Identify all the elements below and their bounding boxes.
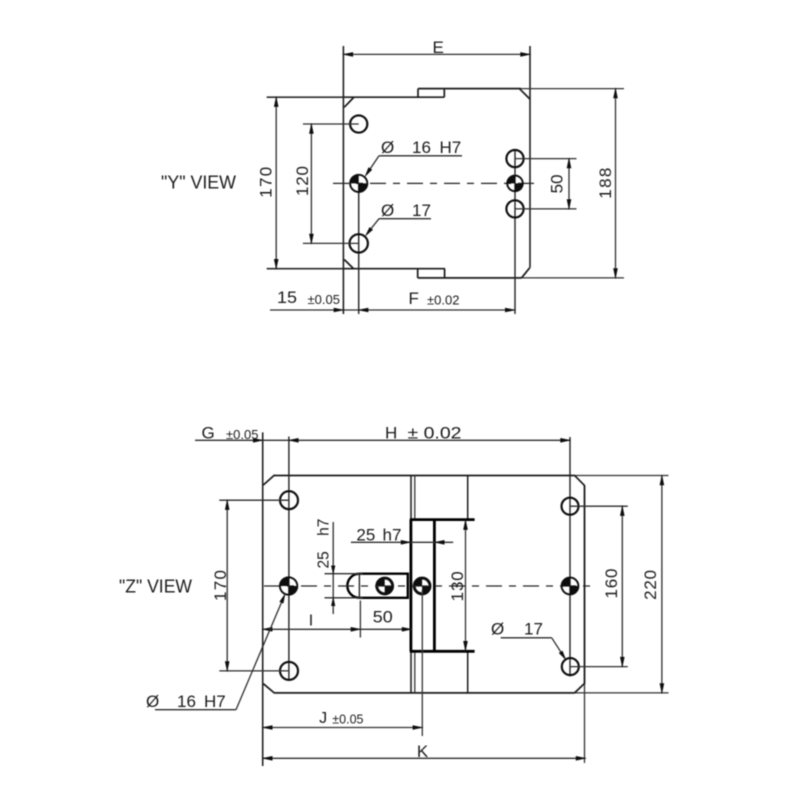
dimension 130 line [465, 520, 467, 652]
Z hole top-left [280, 491, 298, 509]
Z chamfer bottom-right [574, 683, 584, 693]
svg-text:120: 120 [293, 166, 312, 196]
slot cap chord line [358, 574, 360, 598]
svg-text:25: 25 [315, 551, 332, 568]
Z hole top-right [562, 498, 579, 515]
dimension I and 50 line [263, 628, 412, 630]
dimension 220 line [661, 476, 663, 693]
Z dimension 170 line [226, 500, 228, 671]
Z dimension 170 extension lines [219, 499, 289, 501]
svg-text:±0.05: ±0.05 [308, 292, 340, 307]
svg-text:15: 15 [277, 288, 297, 307]
svg-text:I: I [309, 612, 313, 629]
svg-text:H: H [385, 424, 397, 443]
dimension 160 line [621, 506, 623, 666]
svg-text:17: 17 [412, 201, 431, 220]
svg-text:Ø: Ø [381, 138, 394, 157]
svg-text:160: 160 [602, 569, 621, 599]
tenon left line full height [410, 476, 412, 693]
Z left hole column line [288, 437, 290, 681]
dimension 170 extension lines [267, 96, 344, 98]
Y chamfer bottom-left [344, 260, 353, 269]
Z chamfer top-right [574, 475, 584, 486]
svg-text:50: 50 [547, 174, 566, 193]
dimension J line [263, 727, 423, 729]
svg-text:170: 170 [211, 570, 230, 601]
J extension line from slot dowel [421, 590, 423, 736]
svg-text:J: J [319, 710, 327, 727]
Y right hole column line [514, 150, 516, 314]
dimension 188 line [615, 89, 617, 278]
Z plate left edge / extension line [262, 432, 264, 766]
Y hole top-right [506, 150, 523, 167]
Z plate bottom edge [274, 692, 574, 694]
Y centerline [333, 182, 535, 184]
svg-text:G: G [202, 424, 215, 443]
Y hole top-left [350, 115, 367, 132]
svg-text:H7: H7 [204, 692, 226, 711]
dimension K line [263, 757, 586, 759]
svg-text:±0.02: ±0.02 [427, 293, 459, 308]
Y hole bottom-left (Ø17) [350, 234, 368, 252]
Y chamfer bottom-right [522, 268, 530, 278]
svg-text:K: K [417, 742, 429, 761]
svg-text:16: 16 [412, 138, 431, 157]
Y plate bottom-left edge [267, 268, 445, 270]
Y plate left edge / extension line [342, 46, 344, 314]
Z dowel hole right [562, 578, 570, 586]
svg-text:"Z" VIEW: "Z" VIEW [119, 577, 192, 597]
tenon edges (25 h7) [409, 520, 412, 652]
svg-text:25: 25 [356, 525, 375, 544]
svg-text:170: 170 [256, 167, 275, 198]
Y plate right edge / extension line [529, 46, 531, 268]
Y chamfer top-right [520, 89, 530, 99]
extension line slot center [359, 601, 361, 638]
svg-text:±0.05: ±0.05 [332, 712, 363, 726]
dimension 120 extension lines [303, 123, 359, 125]
dimension E line [343, 53, 530, 55]
svg-text:F: F [409, 289, 419, 308]
dimension 25 h7 line [351, 541, 453, 543]
dimension 120 line [310, 124, 312, 243]
Z chamfer bottom-left [263, 684, 274, 693]
Y dowel hole right [507, 176, 515, 184]
Y hole bottom-right [506, 200, 523, 217]
slot width 25 h7 extension lines [325, 573, 363, 575]
svg-text:H7: H7 [440, 138, 462, 157]
slot dowel left [377, 578, 385, 586]
svg-text:E: E [433, 38, 444, 57]
boss inner left line [414, 476, 416, 520]
Y left hole column line [358, 183, 360, 314]
slot width 25 h7 dimension line [332, 522, 334, 614]
svg-text:Ø: Ø [146, 692, 159, 711]
svg-text:220: 220 [641, 570, 660, 600]
svg-text:Ø: Ø [491, 620, 504, 639]
Y plate top-right edge [418, 88, 521, 90]
svg-text:"Y" VIEW: "Y" VIEW [161, 173, 236, 193]
Z chamfer top-left [263, 475, 274, 485]
slot with rounded end [359, 574, 407, 598]
Y plate bottom tab [417, 269, 419, 278]
Z hole bottom-left [280, 662, 298, 680]
svg-text:130: 130 [448, 571, 467, 601]
svg-text:17: 17 [524, 620, 543, 639]
boss right edge top and bottom [467, 476, 469, 520]
svg-text:50: 50 [373, 608, 393, 627]
svg-text:h7: h7 [315, 519, 332, 536]
tenon top shoulder [410, 518, 475, 521]
svg-text:Ø: Ø [381, 201, 394, 220]
slot dowel right on tenon [414, 578, 422, 586]
dimension 170 line [275, 97, 277, 269]
svg-text:16: 16 [177, 692, 196, 711]
Z plate top edge [275, 475, 575, 477]
Z dowel hole left (Ø16 H7) [280, 577, 289, 586]
Z plate right edge [584, 486, 586, 684]
Z centerline [264, 585, 590, 587]
dimension 160 extension lines [570, 505, 628, 507]
dimension 15 and F line [270, 309, 515, 311]
Y plate bottom-right edge [418, 277, 522, 279]
dimension G and H line [195, 439, 570, 441]
Y plate top-left edge [267, 96, 445, 98]
Y dowel hole left (Ø16 H7) [350, 175, 359, 184]
Y chamfer top-left [344, 98, 353, 108]
dimension 50 line [568, 159, 570, 209]
svg-text:h7: h7 [383, 525, 402, 544]
dimension 50 extension lines [515, 158, 577, 160]
Y plate top tab [417, 89, 419, 98]
svg-text:188: 188 [596, 168, 615, 199]
Z right hole column line [569, 437, 571, 677]
svg-text:±0.05: ±0.05 [226, 427, 258, 442]
svg-text:± 0.02: ± 0.02 [408, 424, 462, 443]
tenon bottom shoulder [410, 650, 475, 653]
Z hole bottom-right (Ø17) [562, 658, 579, 675]
